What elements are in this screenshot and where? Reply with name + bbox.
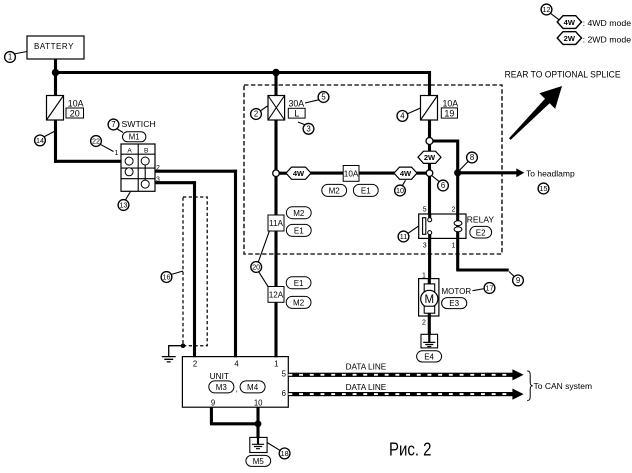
svg-text:6: 6 xyxy=(441,181,445,190)
svg-text:10: 10 xyxy=(396,186,404,195)
svg-text:2: 2 xyxy=(254,110,258,119)
svg-text:22: 22 xyxy=(92,136,100,145)
svg-text:6: 6 xyxy=(282,389,286,398)
svg-text:M3: M3 xyxy=(216,383,228,392)
svg-text:1: 1 xyxy=(114,150,118,157)
svg-text:E2: E2 xyxy=(476,228,486,237)
svg-text:11A: 11A xyxy=(269,219,283,228)
svg-text:5: 5 xyxy=(282,369,287,378)
svg-text:MOTOR: MOTOR xyxy=(442,287,472,296)
svg-text:DATA LINE: DATA LINE xyxy=(346,363,387,372)
svg-text:M2: M2 xyxy=(293,299,305,308)
svg-text:E3: E3 xyxy=(449,299,459,308)
svg-text:4W: 4W xyxy=(564,18,576,27)
svg-text:E1: E1 xyxy=(294,279,304,288)
svg-text:4: 4 xyxy=(400,112,405,121)
svg-text:1: 1 xyxy=(422,272,426,279)
svg-text:5: 5 xyxy=(423,207,427,214)
svg-text:2: 2 xyxy=(193,359,197,368)
svg-text:19: 19 xyxy=(444,108,454,118)
svg-text:To headlamp: To headlamp xyxy=(526,168,575,178)
svg-text:E4: E4 xyxy=(424,353,434,362)
svg-text:17: 17 xyxy=(486,283,494,292)
svg-text:10A: 10A xyxy=(68,98,84,108)
svg-text:12A: 12A xyxy=(269,291,284,300)
svg-text:BATTERY: BATTERY xyxy=(34,42,74,51)
svg-text:RELAY: RELAY xyxy=(467,215,495,225)
svg-text:10A: 10A xyxy=(443,98,459,108)
svg-text:4W: 4W xyxy=(400,169,412,178)
svg-text:SWTICH: SWTICH xyxy=(122,119,156,129)
svg-text:10A: 10A xyxy=(344,169,359,178)
svg-text:2W: 2W xyxy=(424,153,436,162)
svg-text:16: 16 xyxy=(163,272,171,281)
svg-text:,: , xyxy=(236,385,238,394)
svg-text:3: 3 xyxy=(156,176,160,183)
svg-text:2: 2 xyxy=(156,165,160,172)
svg-text:UNIT: UNIT xyxy=(210,371,229,381)
svg-text:Рис. 2: Рис. 2 xyxy=(389,439,432,460)
svg-text:2W: 2W xyxy=(564,34,576,43)
svg-text:M2: M2 xyxy=(329,186,341,195)
svg-text:M1: M1 xyxy=(129,133,140,142)
svg-text:14: 14 xyxy=(36,136,44,145)
svg-text:REAR TO OPTIONAL SPLICE: REAR TO OPTIONAL SPLICE xyxy=(505,70,621,80)
svg-text:2: 2 xyxy=(452,207,456,214)
svg-text:8: 8 xyxy=(470,153,474,162)
svg-text:20: 20 xyxy=(70,108,80,118)
svg-text:3: 3 xyxy=(423,243,427,250)
svg-text:To CAN system: To CAN system xyxy=(534,381,593,391)
svg-text:7: 7 xyxy=(111,120,115,129)
svg-text:1: 1 xyxy=(274,359,278,368)
svg-text:3: 3 xyxy=(306,125,310,134)
svg-text:4: 4 xyxy=(234,359,239,368)
svg-text:10: 10 xyxy=(254,399,263,408)
svg-text:13: 13 xyxy=(120,200,128,209)
svg-text:: 2WD mode: : 2WD mode xyxy=(583,34,632,44)
svg-text:A: A xyxy=(127,147,132,154)
svg-text:20: 20 xyxy=(252,262,260,271)
svg-text:DATA LINE: DATA LINE xyxy=(346,383,387,392)
svg-text:15: 15 xyxy=(540,184,548,193)
svg-text:M: M xyxy=(425,294,435,306)
svg-text:30A: 30A xyxy=(289,98,305,108)
svg-text:5: 5 xyxy=(321,93,326,102)
svg-text:1: 1 xyxy=(8,53,12,62)
svg-text:9: 9 xyxy=(516,276,520,285)
svg-text:4W: 4W xyxy=(293,169,305,178)
svg-text:E1: E1 xyxy=(361,186,371,195)
svg-text:12: 12 xyxy=(543,5,551,14)
svg-text:E1: E1 xyxy=(294,227,304,236)
svg-text:18: 18 xyxy=(281,449,289,458)
svg-text:2: 2 xyxy=(422,320,426,327)
svg-text:11: 11 xyxy=(400,232,407,241)
svg-text:9: 9 xyxy=(211,399,215,408)
svg-text:M5: M5 xyxy=(253,457,265,466)
svg-text:1: 1 xyxy=(452,243,456,250)
svg-text:L: L xyxy=(294,109,299,119)
svg-text:M2: M2 xyxy=(293,209,305,218)
svg-text:M4: M4 xyxy=(247,383,259,392)
svg-text:B: B xyxy=(144,147,148,154)
svg-text:: 4WD mode: : 4WD mode xyxy=(583,18,632,28)
